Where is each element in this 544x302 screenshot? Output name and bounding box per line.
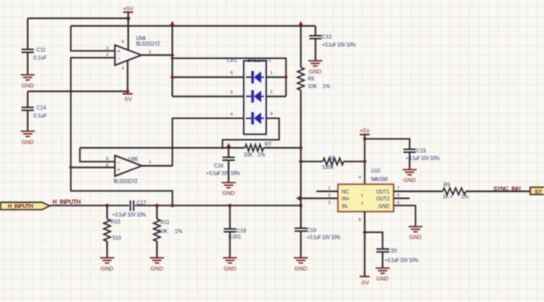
svg-text:7: 7 [149, 160, 152, 165]
U10 bottom pin number [359, 217, 362, 222]
svg-text:• 0.1uF 10V 10%: • 0.1uF 10V 10% [113, 213, 147, 219]
svg-text:GND: GND [151, 266, 163, 272]
ground below C16 [222, 183, 236, 198]
svg-text:10K: 10K [308, 84, 318, 90]
wire CR1 pin4 to U9B out [172, 118, 243, 166]
diode D2 (pins 5-2) [246, 90, 264, 102]
ground below C13 [308, 61, 322, 76]
svg-text:1: 1 [270, 70, 273, 75]
svg-text:8: 8 [359, 217, 362, 222]
capacitor C20 [376, 248, 419, 267]
svg-text:-5V: -5V [123, 97, 132, 103]
svg-text:+5V: +5V [359, 129, 370, 135]
junction C20 branch [363, 231, 366, 234]
svg-text:NAV160: NAV160 [371, 177, 388, 183]
label R8 [329, 156, 336, 162]
svg-text:1%: 1% [461, 194, 469, 200]
wire CR1 pin3 return [223, 118, 280, 148]
svg-text:2: 2 [106, 52, 109, 57]
capacitor C14 [22, 91, 47, 130]
svg-text:U9B: U9B [128, 157, 138, 163]
svg-text:R10: R10 [111, 220, 121, 226]
svg-text:NC: NC [342, 189, 350, 195]
junction C18 [228, 204, 231, 207]
U10 pin OUT2 [376, 193, 409, 203]
svg-text:6: 6 [397, 193, 400, 198]
svg-text:3: 3 [106, 45, 109, 50]
junction R8 at +5V [363, 160, 366, 163]
junction IN+ tap [296, 196, 338, 201]
pin 7 number [149, 160, 152, 165]
label R6 [308, 77, 315, 83]
wire +5V rail to C11 [28, 17, 129, 19]
svg-text:GND: GND [376, 277, 388, 283]
svg-text:2: 2 [270, 89, 273, 94]
svg-text:CR1: CR1 [227, 58, 237, 64]
pin 1 number [149, 49, 152, 54]
label BAS16TP-T [248, 58, 272, 64]
label U9B [128, 157, 138, 163]
value 10K 1% (R11) [159, 229, 183, 235]
ground below R11 [150, 258, 164, 273]
CR1 pin numbers right [270, 70, 273, 116]
svg-text:5: 5 [106, 162, 109, 167]
svg-text:GND: GND [309, 69, 321, 75]
wire U9B pin5 [69, 166, 115, 169]
svg-text:R9: R9 [444, 183, 451, 189]
svg-text:R6: R6 [308, 77, 315, 83]
port H_INPUTH [1, 202, 50, 210]
wire to C20 [365, 232, 383, 249]
svg-text:C14: C14 [37, 106, 47, 112]
svg-text:4: 4 [230, 111, 233, 116]
junction R10 [105, 204, 108, 207]
junction mid-net right [299, 146, 302, 149]
svg-text:1%: 1% [175, 229, 183, 235]
svg-text:GND: GND [21, 140, 33, 146]
ground below C14 [21, 131, 35, 146]
svg-text:• 0.1uF 10V 10%: • 0.1uF 10V 10% [385, 258, 419, 264]
power +5V (U9A) [123, 6, 134, 18]
svg-text:1K •: 1K • [443, 194, 453, 200]
svg-text:4: 4 [122, 66, 125, 71]
component U10 box [338, 184, 394, 211]
svg-text:C16: C16 [214, 164, 224, 170]
svg-text:C15: C15 [417, 148, 427, 154]
resistor R11 [154, 206, 161, 258]
capacitor C11 [22, 18, 47, 74]
svg-text:6: 6 [106, 156, 109, 161]
CR1 pin numbers left [230, 70, 233, 116]
wire R8 right [344, 161, 365, 163]
wire input net [50, 205, 301, 207]
U10 pin IN- [328, 200, 349, 210]
pin 6 number [106, 156, 109, 161]
junction C16 [226, 143, 231, 147]
svg-text:C20: C20 [388, 248, 398, 254]
wire U9A V- pin [127, 60, 129, 91]
svg-text:OUT2: OUT2 [376, 197, 390, 203]
svg-text:• 0.1uF 10V 10%: • 0.1uF 10V 10% [207, 171, 241, 177]
svg-text:• 0.1uF 10V 10%: • 0.1uF 10V 10% [307, 235, 341, 241]
svg-text:0.1uF: 0.1uF [34, 56, 47, 62]
svg-text:GND: GND [224, 266, 236, 272]
capacitor C13 [309, 26, 356, 61]
resistor R9 [443, 188, 466, 195]
junction R11 [155, 204, 158, 207]
ground below C20 [376, 268, 390, 283]
value 510 [113, 236, 122, 242]
svg-text:GND: GND [378, 204, 390, 210]
junction output at vert [170, 21, 175, 96]
junction C15 branch [363, 137, 366, 140]
wire -5V rail [28, 90, 128, 92]
svg-text:-: - [118, 56, 120, 62]
net label SYNC_INH [494, 186, 521, 192]
junction U9B input tap [171, 204, 174, 207]
junction mid-net at U9B out [0, 0, 1, 1]
pin 5 number [106, 162, 109, 167]
wire R8 left [301, 161, 323, 163]
svg-text:5: 5 [397, 200, 400, 205]
svg-text:0.001: 0.001 [229, 234, 242, 240]
ground below C19 [294, 258, 308, 273]
op-amp U9B [115, 156, 142, 177]
U10 pin GND [378, 200, 415, 226]
svg-text:• 0.1uF 10V 10%: • 0.1uF 10V 10% [406, 156, 440, 162]
ground below C15 [403, 170, 417, 185]
junction -5V [126, 90, 129, 93]
wire U9B feedback [80, 148, 115, 162]
resistor R8 [323, 158, 344, 165]
svg-text:H_INPUTH: H_INPUTH [8, 204, 33, 210]
junction +5V rail [126, 16, 130, 20]
value 10K 1% (RT) [244, 152, 266, 158]
value 100K [322, 165, 335, 171]
port SYNC_INH [530, 187, 544, 195]
wire output net (top) [71, 25, 316, 27]
svg-text:• 0.1uF 10V 10%: • 0.1uF 10V 10% [322, 42, 356, 48]
svg-text:510: 510 [113, 236, 122, 242]
svg-text:1%: 1% [323, 84, 331, 90]
wire U10 V- pin [364, 212, 366, 277]
svg-text:1%: 1% [258, 152, 266, 158]
resistor RT [245, 145, 264, 152]
svg-text:C11: C11 [37, 48, 46, 54]
ground below R10 [100, 258, 114, 273]
svg-text:5: 5 [230, 89, 233, 94]
ground below C18 [223, 258, 237, 273]
label NAV160 [371, 177, 388, 183]
svg-text:1: 1 [149, 49, 152, 54]
resistor R10 [104, 206, 111, 258]
svg-text:GND: GND [409, 235, 421, 241]
svg-text:SYNC_INH: SYNC_INH [494, 186, 521, 192]
svg-text:-5V: -5V [360, 281, 369, 287]
junction R8 [299, 160, 302, 163]
label CR1 [227, 58, 237, 64]
svg-text:SY: SY [535, 189, 543, 195]
svg-text:6: 6 [230, 70, 233, 75]
svg-text:OUT1: OUT1 [376, 189, 390, 195]
svg-text:GND: GND [222, 191, 234, 197]
svg-text:3: 3 [270, 111, 273, 116]
net label H_INPUTH [53, 200, 81, 206]
power -5V (U10) [360, 277, 370, 287]
label BLS1011YZ (U9B) [114, 179, 138, 185]
svg-text:U10: U10 [371, 169, 380, 175]
svg-text:GND: GND [101, 266, 113, 272]
svg-text:0.1uF: 0.1uF [34, 114, 47, 120]
power +5V (U10) [359, 129, 370, 185]
pin number 8 [122, 39, 125, 44]
svg-text:10K: 10K [244, 152, 254, 158]
svg-text:IN-: IN- [342, 204, 349, 210]
label R11 [161, 220, 170, 226]
svg-text:C19: C19 [307, 228, 317, 234]
svg-text:R11: R11 [161, 220, 170, 226]
junction U9A output [171, 54, 174, 57]
svg-text:1: 1 [328, 185, 331, 190]
op-amp U9A [115, 45, 142, 65]
label R9 [444, 183, 451, 189]
svg-text:4: 4 [359, 174, 362, 179]
corner wire to U9A pin3 [71, 26, 115, 51]
U10 pin NC [316, 185, 349, 195]
diode D3 (pins 4-3) [246, 112, 264, 124]
wire U9A V+ pin [127, 18, 129, 49]
wire to CR1 pin 5 [172, 95, 243, 97]
pin number 4 [122, 66, 125, 71]
junction pin3 return [221, 146, 224, 149]
junction input net right [299, 204, 302, 207]
svg-text:10K: 10K [159, 229, 169, 235]
U10 internal arrows [361, 188, 364, 208]
wire to CR1 pin 6 [171, 76, 244, 79]
capacitor C16 [207, 148, 241, 182]
ground below C11 [21, 75, 35, 90]
wire U9A pin2 [71, 58, 173, 206]
wire CR1 out tie [171, 57, 286, 97]
label RT [265, 142, 273, 148]
wire CR1 pin2 stub [266, 95, 286, 97]
label U10 [371, 169, 380, 175]
wire node column [300, 148, 302, 228]
svg-text:C17: C17 [137, 200, 147, 206]
U10 pin IN+ [328, 193, 350, 203]
diode D1 (pins 6-1) [246, 71, 264, 83]
svg-text:GND: GND [403, 178, 415, 184]
junction R6 top [299, 21, 304, 25]
capacitor C19 [295, 206, 341, 258]
diode box CR1 [244, 61, 267, 135]
resistor R6 [298, 26, 305, 148]
wire R9 to port [466, 190, 530, 192]
pin 3 number [106, 45, 109, 50]
svg-text:BLS1011YZ: BLS1011YZ [114, 179, 138, 185]
wire U9B output [142, 165, 173, 167]
label R10 [111, 220, 121, 226]
capacitor C18 [224, 206, 247, 258]
svg-text:IN+: IN+ [342, 197, 350, 203]
wire to C15 [365, 139, 410, 149]
pin 2 number [106, 52, 109, 57]
svg-text:RT: RT [265, 142, 273, 148]
ground U10 pin5 [409, 227, 423, 242]
svg-text:7: 7 [397, 185, 400, 190]
svg-text:GND: GND [295, 266, 307, 272]
wire CR1 pin1 stub [266, 76, 287, 79]
value 1K 1% (R9) [443, 194, 469, 200]
label BLS1011YZ (U9A) [136, 41, 160, 47]
power -5V (U9A) [123, 94, 133, 103]
svg-text:+: + [117, 49, 120, 55]
capacitor C15 [403, 148, 440, 169]
capacitor C17 (series) [113, 200, 147, 218]
svg-text:3: 3 [328, 200, 331, 205]
svg-text:GND: GND [21, 83, 33, 89]
svg-text:BLS1011YZ: BLS1011YZ [136, 41, 160, 47]
wire U9A output [142, 54, 173, 56]
svg-text:+: + [117, 167, 120, 173]
svg-text:-: - [118, 160, 120, 166]
svg-text:R8: R8 [329, 156, 336, 162]
label U9A [136, 36, 146, 42]
svg-text:C13: C13 [322, 35, 332, 41]
U10 pin OUT1 [376, 185, 443, 195]
U10 top pin number [359, 174, 362, 179]
svg-text:100K: 100K [322, 165, 335, 171]
value 10K 1% (R6) [308, 84, 331, 90]
svg-text:2: 2 [328, 193, 331, 198]
wire mid net [80, 147, 301, 149]
